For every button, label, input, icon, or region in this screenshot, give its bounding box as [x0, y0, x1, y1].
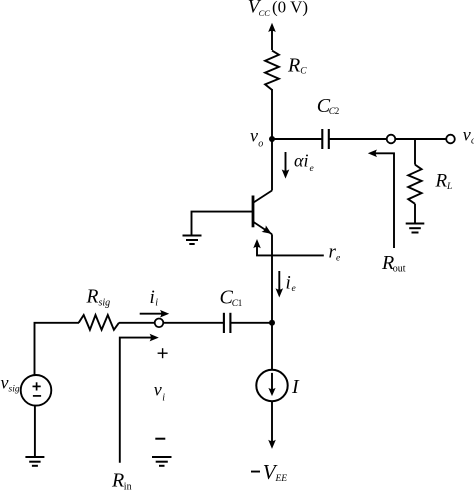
label vc [463, 124, 474, 146]
label CC1 [220, 287, 243, 309]
svg-text:v: v [154, 380, 162, 400]
svg-text:i: i [155, 298, 158, 309]
resistor RC [265, 51, 279, 90]
svg-text:sig: sig [9, 385, 20, 395]
transistor Q1 collector lead [254, 191, 273, 203]
plus sign vi [158, 348, 168, 358]
re arrow [253, 239, 324, 255]
net -VEE label [251, 460, 287, 484]
Rin arrow [120, 334, 159, 463]
wire vo to CC2 [272, 138, 322, 140]
label vo [250, 126, 263, 150]
transistor Q1 base bar [252, 196, 255, 228]
svg-text:R: R [86, 287, 99, 308]
ie arrow [276, 271, 284, 298]
label alpha-ie [294, 151, 314, 175]
wire emitter down to input node [271, 234, 273, 322]
svg-text:o: o [258, 138, 263, 149]
label vi [154, 380, 166, 404]
net VCC label [248, 0, 308, 18]
svg-text:I: I [291, 376, 300, 398]
alpha-ie arrow [282, 152, 290, 179]
svg-text:L: L [446, 182, 452, 192]
transistor Q1 emitter lead with arrow [254, 222, 273, 234]
wire RC to node vo [271, 89, 273, 139]
capacitor CC2 [322, 129, 329, 149]
wire current source to VEE arrow [268, 401, 276, 449]
ground (vi, no stem) [152, 457, 172, 466]
label RC [287, 54, 307, 76]
wire Rsig to input terminal [119, 322, 155, 324]
wire RL to ground [414, 204, 416, 223]
source vsig circle [21, 375, 52, 406]
svg-text:i: i [150, 287, 155, 308]
svg-text:i: i [286, 273, 291, 294]
svg-text:sig: sig [99, 298, 111, 309]
svg-text:EE: EE [275, 474, 288, 484]
capacitor CC1 [224, 313, 231, 333]
svg-text:αi: αi [294, 151, 308, 171]
wire CC1 to node E [230, 322, 272, 324]
svg-text:CC: CC [259, 8, 271, 18]
vsig plus [33, 382, 41, 390]
svg-text:e: e [336, 254, 340, 264]
label Rin [111, 470, 132, 490]
ground (vsig) [25, 457, 44, 466]
ground (RL) [406, 224, 425, 233]
current source I [256, 370, 287, 401]
svg-text:in: in [124, 482, 132, 490]
label re [329, 242, 341, 264]
svg-text:C: C [300, 66, 307, 76]
label ii [150, 287, 159, 309]
Rout arrow [368, 150, 394, 249]
svg-text:v: v [250, 126, 258, 146]
wire terminal to CC1 [163, 322, 224, 324]
terminal input (open circle) [155, 319, 164, 328]
wire node E to current source [271, 323, 273, 370]
label vsig [1, 373, 20, 395]
svg-text:e: e [292, 284, 296, 294]
svg-text:(0 V): (0 V) [272, 0, 308, 17]
svg-text:v: v [463, 124, 471, 144]
ground (base) [183, 236, 202, 245]
node E junction [269, 320, 275, 326]
svg-text:R: R [287, 54, 300, 76]
wire base to ground [192, 212, 254, 235]
wire vo down to collector [271, 139, 273, 191]
svg-text:1: 1 [238, 298, 243, 308]
svg-text:R: R [435, 171, 448, 192]
wire CC2 to terminal [329, 138, 387, 140]
label ie [286, 273, 296, 295]
resistor Rsig [79, 315, 119, 330]
label CC2 [317, 95, 340, 117]
terminal vc (open circle, right) [446, 135, 455, 144]
svg-text:v: v [1, 373, 9, 393]
terminal (open circle, left) [387, 135, 396, 144]
label Rout [381, 252, 406, 275]
ii arrow [140, 310, 170, 318]
vsig minus [33, 395, 41, 397]
wire vsig up [35, 323, 80, 376]
label Rsig [86, 287, 111, 309]
wire vsig to ground [34, 405, 36, 456]
svg-text:2: 2 [335, 106, 340, 116]
VCC arrow [268, 23, 276, 50]
wire down to RL [414, 139, 416, 165]
svg-text:e: e [310, 164, 314, 174]
resistor RL [408, 165, 421, 204]
label RL [435, 171, 453, 193]
svg-text:i: i [162, 392, 165, 403]
svg-text:R: R [111, 470, 124, 490]
minus sign vi [155, 438, 165, 440]
wire terminal to terminal vc [395, 138, 446, 140]
node vo [269, 136, 275, 142]
svg-text:out: out [393, 264, 406, 275]
